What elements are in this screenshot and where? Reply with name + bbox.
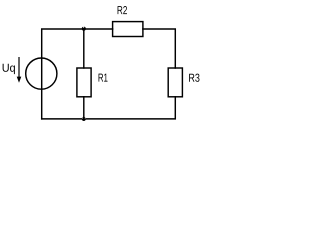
label R3 (189, 74, 199, 82)
wire (83, 29, 85, 68)
label R2 (118, 6, 127, 14)
voltage source Uq (26, 58, 57, 89)
resistor R1 (77, 68, 91, 97)
label Uq (3, 64, 15, 74)
node junction bottom (82, 117, 86, 121)
arrow Uq direction (17, 57, 22, 83)
wire (42, 29, 113, 119)
wire (42, 97, 176, 119)
resistor R3 (168, 68, 182, 97)
wire (143, 29, 175, 68)
label R1 (99, 74, 108, 82)
wire (83, 97, 85, 119)
resistor R2 (113, 22, 143, 37)
node junction top (82, 27, 86, 31)
